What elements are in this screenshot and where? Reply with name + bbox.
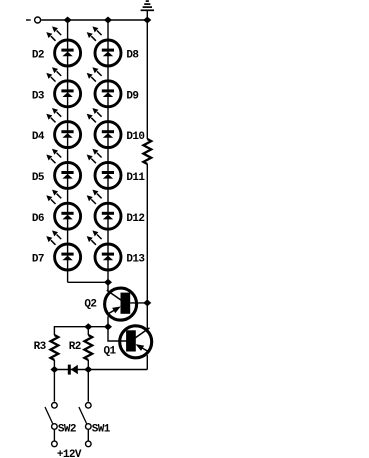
- svg-text:D4: D4: [32, 131, 45, 143]
- svg-text:D13: D13: [126, 254, 145, 266]
- svg-text:D2: D2: [32, 50, 44, 62]
- svg-text:R2: R2: [69, 341, 81, 353]
- svg-text:D12: D12: [126, 213, 144, 225]
- node: top rail / ground junction: [143, 17, 151, 24]
- wire: R2 top stub: [87, 327, 89, 335]
- wire: node to Q1 base: [108, 327, 127, 341]
- LED D11: [87, 149, 146, 189]
- svg-text:D8: D8: [126, 50, 139, 62]
- wire: R3 bottom stub: [53, 360, 55, 370]
- node: top rail / left column junction: [64, 17, 72, 24]
- resistor R2: [69, 335, 93, 360]
- LED D12: [87, 190, 145, 230]
- svg-text:Q1: Q1: [104, 346, 117, 358]
- resistor R1 (right rail): [143, 139, 151, 164]
- svg-text:D7: D7: [32, 254, 44, 266]
- LED D10: [87, 108, 145, 148]
- LED D8: [87, 26, 140, 66]
- +12V open terminal right: [86, 441, 92, 447]
- wire: SW1 branch: [87, 370, 89, 402]
- LED D6: [32, 190, 81, 230]
- wire: R3/R2 top branch: [54, 327, 108, 335]
- wire: right LED column: [107, 20, 109, 291]
- wire: Q2 emitter down to node: [107, 316, 109, 326]
- svg-text:D11: D11: [126, 172, 145, 184]
- svg-text:D6: D6: [32, 213, 44, 225]
- negative supply open terminal: [35, 17, 41, 23]
- wire: left LED column: [67, 20, 69, 282]
- LED D4: [32, 108, 81, 148]
- LED D2: [32, 26, 81, 66]
- svg-text:D5: D5: [32, 172, 45, 184]
- wire: SW2 to +12V terminal: [53, 430, 55, 441]
- diode D1: [68, 365, 78, 375]
- switch SW1: [79, 403, 111, 436]
- svg-text:+12V: +12V: [57, 449, 82, 458]
- LED D13: [87, 230, 146, 270]
- transistor Q2: [84, 288, 136, 320]
- resistor R3: [34, 335, 59, 360]
- +12V open terminal left: [52, 441, 58, 447]
- svg-text:SW2: SW2: [58, 424, 76, 436]
- LED D3: [32, 67, 81, 107]
- svg-text:D10: D10: [126, 131, 144, 143]
- wire: right rail upper (ground to resistor): [146, 20, 148, 139]
- wire: SW2 branch: [53, 370, 55, 402]
- switch SW2: [45, 403, 76, 436]
- svg-text:Q2: Q2: [84, 298, 96, 310]
- wire: Q1 emitter drop to bottom rail: [146, 355, 148, 369]
- LED D5: [32, 149, 81, 189]
- node: Q2 base / right rail junction: [143, 299, 151, 306]
- svg-text:R3: R3: [34, 341, 47, 353]
- svg-text:D3: D3: [32, 90, 45, 102]
- wire: top negative rail: [41, 19, 147, 21]
- node: R2 bottom / SW1 junction: [84, 366, 92, 373]
- node: R2 top junction: [84, 323, 92, 330]
- node: R3 bottom / SW2 junction: [50, 366, 58, 373]
- wire: SW1 to +12V terminal: [87, 430, 89, 441]
- svg-text:D9: D9: [126, 90, 138, 102]
- node: Q2 emitter / R branch junction: [104, 323, 112, 330]
- LED D9: [87, 67, 139, 107]
- node: LED columns / Q2 emitter junction: [104, 279, 112, 286]
- wire: ground stem: [146, 10, 148, 20]
- wire: bottom rail: [54, 369, 147, 371]
- LED D7: [32, 230, 81, 270]
- wire: Q2 base to right rail: [130, 302, 147, 304]
- negative supply terminal minus sign: [26, 19, 31, 20]
- wire: R2 bottom stub: [87, 360, 89, 370]
- ground symbol: [141, 1, 154, 10]
- wire: bottom jog of left column: [68, 281, 108, 283]
- wire: right rail mid (resistor to Q1 collector): [146, 164, 148, 330]
- transistor Q1: [104, 326, 152, 358]
- svg-text:SW1: SW1: [92, 424, 111, 436]
- node: top rail / right column junction: [104, 17, 112, 24]
